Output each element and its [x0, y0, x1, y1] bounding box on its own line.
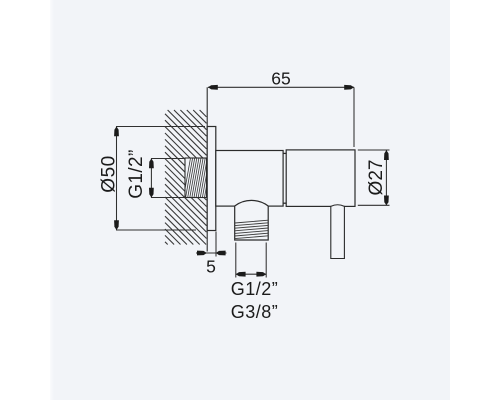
inlet thread block G1/2 in wall: [185, 158, 207, 198]
groove bridge top: [283, 152, 287, 154]
outlet thread lines: [235, 220, 269, 238]
dim G1/2 left: [149, 159, 185, 198]
svg-text:Ø27: Ø27: [366, 160, 387, 196]
dim 65 line: [208, 85, 354, 147]
groove bridge bottom: [283, 202, 287, 204]
svg-text:G1/2”: G1/2”: [231, 279, 279, 299]
svg-text:Ø50: Ø50: [99, 155, 120, 192]
wall hatch: [165, 110, 207, 245]
dim G bottom: [236, 243, 266, 278]
dim D50: [114, 127, 205, 231]
outlet tube with dome: [235, 200, 269, 240]
svg-text:G1/2”: G1/2”: [126, 149, 147, 199]
wall face line: [206, 87, 208, 251]
panel background: [50, 0, 450, 400]
dim 5: [196, 232, 227, 257]
svg-text:65: 65: [271, 69, 290, 89]
svg-text:5: 5: [206, 257, 216, 277]
handle pin rod: [331, 205, 345, 259]
flange plate: [207, 127, 216, 231]
dim D27: [358, 150, 390, 205]
svg-text:G3/8”: G3/8”: [231, 302, 279, 322]
handle section: [286, 150, 355, 207]
valve body: [216, 151, 283, 207]
